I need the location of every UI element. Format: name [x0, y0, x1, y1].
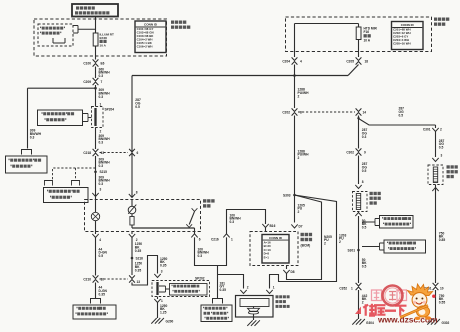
bracket SP202 ref — [159, 286, 170, 292]
svg-text:18: 18 — [365, 59, 369, 63]
connector C205 pin 18 — [356, 57, 362, 64]
arrow out of left mirror — [355, 213, 361, 217]
connector C100 pin E6 — [93, 59, 99, 66]
svg-text:C210: C210 — [83, 277, 91, 281]
wire C210 pin13 jog to SP202 — [132, 256, 158, 286]
arrow pin 1 into antenna module — [266, 290, 272, 294]
svg-text:S216: S216 — [136, 256, 144, 260]
svg-text:0.35: 0.35 — [220, 288, 227, 292]
watermark weiku yixia text — [355, 307, 361, 315]
svg-text:0.5: 0.5 — [135, 105, 140, 109]
svg-text:0.5: 0.5 — [439, 146, 444, 150]
svg-text:0.3: 0.3 — [99, 141, 104, 145]
svg-text:0.5: 0.5 — [362, 226, 367, 230]
label body control module BCM — [301, 233, 313, 236]
BCM CONN ID table — [262, 235, 289, 264]
resistor element — [130, 217, 134, 226]
inner ref dashed box power distribution — [38, 24, 73, 46]
arrow pin 8 into switch box — [131, 149, 133, 197]
svg-text:8: 8 — [300, 110, 302, 114]
bracket pair to ref box — [45, 181, 53, 186]
svg-text:7: 7 — [101, 80, 103, 84]
ref box power distribution schematic — [6, 156, 48, 173]
bracket to fuse wire — [73, 26, 96, 34]
watermark stamp circle — [383, 286, 403, 306]
svg-text:2: 2 — [247, 285, 249, 289]
connector C218 pin 6 — [129, 149, 135, 156]
svg-text:3: 3 — [161, 269, 163, 273]
splice SP204 dashed box — [92, 107, 104, 128]
svg-text:3: 3 — [100, 187, 102, 191]
svg-text:2: 2 — [339, 240, 341, 244]
wire C301 to right mirror — [435, 132, 437, 158]
wire down to C302 — [358, 116, 360, 149]
svg-text:E=1: E=1 — [264, 256, 270, 260]
arrow D7 into BCM — [291, 224, 297, 228]
svg-text:F16: F16 — [364, 30, 370, 34]
wire 287 OG drop at left — [131, 76, 133, 150]
indicator lamp — [91, 212, 99, 220]
svg-text:1: 1 — [351, 287, 353, 291]
svg-text:0.3: 0.3 — [99, 182, 104, 186]
wire C202 pin14 branch to C301 — [358, 116, 360, 119]
arrow pin 2 into antenna module — [217, 275, 244, 289]
label defogger switch — [203, 199, 215, 202]
ref box ground distribution at SP202 — [170, 284, 208, 296]
svg-text:8: 8 — [136, 190, 138, 194]
arrow pin 2 below switch box — [131, 232, 133, 235]
label radio antenna module — [276, 295, 290, 298]
svg-text:SP202: SP202 — [195, 276, 205, 280]
BCM dashed box — [250, 232, 298, 266]
arrow into right mirror — [432, 158, 438, 162]
svg-text:C301: C301 — [423, 127, 431, 131]
heater element right mirror — [433, 167, 437, 183]
svg-text:3: 3 — [441, 153, 443, 157]
watermark mascot — [400, 284, 435, 320]
svg-text:S301: S301 — [348, 248, 356, 252]
svg-text:D8: D8 — [291, 270, 295, 274]
svg-text:2: 2 — [324, 242, 326, 246]
svg-text:EF28: EF28 — [100, 36, 108, 40]
svg-text:C302: C302 — [346, 150, 354, 154]
connector C216 pin 1 — [223, 234, 229, 238]
svg-text:1.25: 1.25 — [160, 311, 167, 315]
wire C216 pin6 loop — [195, 237, 227, 265]
wire S303 branch 2 to 1203 — [270, 195, 337, 289]
wire C302 to left mirror — [358, 156, 360, 185]
svg-text:CONN ID: CONN ID — [401, 23, 415, 27]
svg-text:B16: B16 — [270, 224, 276, 228]
svg-text:6: 6 — [137, 151, 139, 155]
svg-text:C204: C204 — [282, 59, 290, 63]
wire fuse to C100 — [95, 46, 97, 60]
bus wire inside IP fuse box — [295, 23, 359, 25]
svg-text:0.35: 0.35 — [135, 268, 142, 272]
connector C302 pin 9 — [356, 148, 362, 155]
left outside mirror dashed box — [353, 192, 368, 212]
svg-text:C202: C202 — [282, 110, 290, 114]
ref box interior lights dimming — [73, 305, 116, 319]
svg-text:0.5: 0.5 — [362, 169, 367, 173]
wire C100 to C209 — [95, 67, 97, 79]
ref box ground distribution upper — [380, 216, 414, 229]
svg-text:SP204: SP204 — [105, 108, 115, 112]
svg-text:0.85: 0.85 — [439, 238, 446, 242]
svg-text:10 A: 10 A — [100, 44, 107, 48]
splice SP202 dashed box — [152, 281, 210, 297]
bracket ground ref upper — [362, 219, 380, 226]
svg-text:0.3: 0.3 — [230, 220, 235, 224]
connector C352 pin 1 — [356, 283, 362, 290]
arrow out of SP202 pin 1 — [157, 297, 159, 300]
switch contacts — [192, 208, 198, 211]
label right outside rearview mirror — [447, 165, 458, 168]
svg-text:14: 14 — [363, 110, 367, 114]
dashed connector link C202 — [298, 111, 355, 113]
svg-text:13: 13 — [101, 151, 105, 155]
wire into lamp — [95, 200, 97, 213]
CONN ID table right — [392, 22, 424, 50]
radio antenna module box — [236, 296, 274, 318]
wire lamp to box bottom — [95, 221, 97, 232]
svg-text:2: 2 — [298, 210, 300, 214]
svg-text:2: 2 — [362, 301, 364, 305]
wire S215 to switch box — [95, 173, 97, 200]
label fuse box - instrument panel — [434, 18, 449, 21]
fuse ILLUM RT EF28 10A — [93, 33, 98, 46]
speaker symbol — [248, 308, 260, 311]
svg-text:G200: G200 — [166, 320, 174, 324]
main 287 OG horizontal run — [132, 75, 348, 77]
svg-text:8: 8 — [362, 180, 364, 184]
wire S301 to C352 — [358, 250, 360, 283]
heater element left mirror — [356, 194, 360, 210]
headlamp switch title box — [72, 4, 118, 17]
svg-text:0.5: 0.5 — [99, 254, 104, 258]
CONN ID table left — [135, 21, 166, 53]
fuse HTD MIR F16 10A — [358, 24, 360, 28]
splice S301 — [357, 249, 360, 252]
svg-text:C106=2 WH: C106=2 WH — [137, 44, 153, 48]
wire S303 branch 1 to N205 — [287, 195, 322, 280]
wire pin2 to S216 — [131, 238, 133, 276]
ref box ground distribution lower — [384, 240, 426, 253]
wire 181 GY to radio ref — [217, 266, 219, 299]
wire from title box to fuse ILLUM RT — [95, 17, 97, 34]
splice S216 — [131, 257, 134, 260]
half box to power distribution — [22, 150, 32, 155]
bracket SP204 ref — [83, 114, 92, 122]
arrow into SP202 — [154, 274, 160, 278]
svg-text:0.3: 0.3 — [99, 74, 104, 78]
svg-text:C216: C216 — [211, 238, 219, 242]
arrow pin 4 below switch box — [95, 232, 97, 235]
svg-text:4: 4 — [99, 238, 101, 242]
svg-text:S303: S303 — [283, 193, 291, 197]
half box to interior lights — [91, 299, 101, 304]
wire C218 to S215 — [95, 156, 97, 171]
svg-text:(BCM): (BCM) — [301, 244, 311, 248]
svg-text:C209: C209 — [83, 80, 91, 84]
junction node — [94, 87, 97, 90]
ref box power distribution at SP204 — [38, 110, 83, 126]
half box to radio schematic — [213, 299, 223, 304]
svg-text:D7: D7 — [299, 224, 303, 228]
bracket ground ref lower — [362, 243, 384, 250]
wire C204 to C202 — [294, 65, 296, 109]
defogger switch dashed box — [85, 200, 201, 232]
wire C209 down to SP204 — [95, 85, 97, 107]
svg-text:10 A: 10 A — [364, 38, 371, 42]
svg-text:2: 2 — [298, 156, 300, 160]
fuse box engine compartment dashed boundary — [34, 19, 167, 56]
connector C204 pin 4 — [292, 57, 298, 64]
arrow out of right mirror — [432, 188, 438, 192]
arrow into switch box — [92, 193, 98, 197]
svg-text:0.3: 0.3 — [99, 164, 104, 168]
svg-text:CONN ID: CONN ID — [269, 236, 283, 240]
connector C361 pin 10 — [433, 283, 439, 290]
dashed ref from S215 to power distribution — [53, 168, 96, 180]
connector C202 pin 8 — [292, 108, 298, 115]
wire C361 to ground G302 — [435, 290, 437, 319]
wire SP202 to ground G200 — [157, 303, 159, 319]
arrow B16 into BCM — [262, 224, 268, 228]
connector C218 pin 13 — [93, 149, 99, 156]
connector C209 pin 7 — [93, 78, 99, 85]
bracket under ref text — [53, 38, 65, 43]
svg-text:0.5: 0.5 — [362, 265, 367, 269]
svg-text:10: 10 — [440, 287, 444, 291]
svg-text:C352: C352 — [339, 287, 347, 291]
svg-text:9: 9 — [364, 150, 366, 154]
svg-text:S215: S215 — [100, 170, 108, 174]
svg-text:4: 4 — [300, 59, 302, 63]
svg-text:CONN ID: CONN ID — [144, 22, 158, 26]
arrow into left mirror — [355, 185, 361, 189]
svg-text:0.3: 0.3 — [30, 135, 35, 139]
junction on 287 OG run — [293, 74, 296, 77]
svg-text:0.3: 0.3 — [362, 135, 367, 139]
svg-text:0.5: 0.5 — [399, 113, 404, 117]
svg-text:G304: G304 — [366, 321, 374, 325]
svg-text:6: 6 — [199, 238, 201, 242]
svg-text:2: 2 — [440, 127, 442, 131]
svg-text:1: 1 — [273, 285, 275, 289]
label fuse box - engine compartment — [171, 21, 186, 24]
ground G200 — [151, 318, 164, 324]
wire SP204 to C218 — [95, 128, 97, 150]
svg-text:1: 1 — [231, 238, 233, 242]
splice S215 — [94, 171, 97, 174]
svg-text:C218: C218 — [83, 151, 91, 155]
svg-text:1: 1 — [161, 299, 163, 303]
svg-text:0.35: 0.35 — [99, 292, 106, 296]
dashed connector link C218 — [100, 152, 129, 154]
ground G304 — [352, 319, 365, 325]
internal bus bar — [131, 225, 133, 228]
label left outside rearview mirror — [370, 192, 381, 195]
wire left mirror ground — [358, 216, 360, 249]
wire branch to power distribution ref — [28, 87, 96, 89]
connector C202 pin 14 — [356, 108, 362, 115]
antenna module inner unit — [240, 299, 269, 307]
dashed connector link C210 — [100, 278, 129, 280]
connector C210 pin 10 — [93, 275, 99, 282]
svg-text:0.35: 0.35 — [160, 264, 167, 268]
connector C216 pin 6 — [194, 232, 196, 234]
connector C210 pin 13 — [129, 275, 135, 282]
svg-text:0.3: 0.3 — [198, 254, 203, 258]
right outside mirror dashed box — [428, 165, 443, 185]
svg-text:E6: E6 — [101, 61, 105, 65]
svg-text:C205: C205 — [346, 59, 354, 63]
svg-text:0.55: 0.55 — [439, 301, 446, 305]
svg-text:0.35: 0.35 — [135, 249, 142, 253]
wire C202 to S303 — [294, 116, 296, 223]
svg-text:C205=16 WH: C205=16 WH — [393, 42, 410, 46]
svg-text:G302: G302 — [442, 321, 450, 325]
antenna module ground — [253, 314, 255, 320]
wire C216 pin1 to BCM B16 — [227, 210, 266, 234]
arrow D8 out of BCM — [286, 266, 288, 270]
ref box radio speakers schematic — [201, 305, 232, 322]
svg-text:C100: C100 — [83, 61, 91, 65]
svg-text:13: 13 — [137, 280, 141, 284]
wire pin4 to C210 — [95, 238, 97, 276]
svg-text:2: 2 — [298, 95, 300, 99]
connector C301 pin 2 — [432, 128, 438, 132]
wire right mirror to C361 — [435, 185, 437, 284]
fuse box instrument panel dashed boundary — [286, 17, 432, 52]
LED lamp — [128, 206, 136, 214]
svg-text:0.3: 0.3 — [99, 95, 104, 99]
svg-text:1: 1 — [100, 103, 102, 107]
splice S303 — [293, 194, 296, 197]
wire C352 to ground G304 — [358, 290, 360, 319]
ref box power distribution lower — [44, 188, 89, 203]
watermark pink outlined text — [372, 290, 407, 301]
ground G302 — [427, 319, 440, 325]
